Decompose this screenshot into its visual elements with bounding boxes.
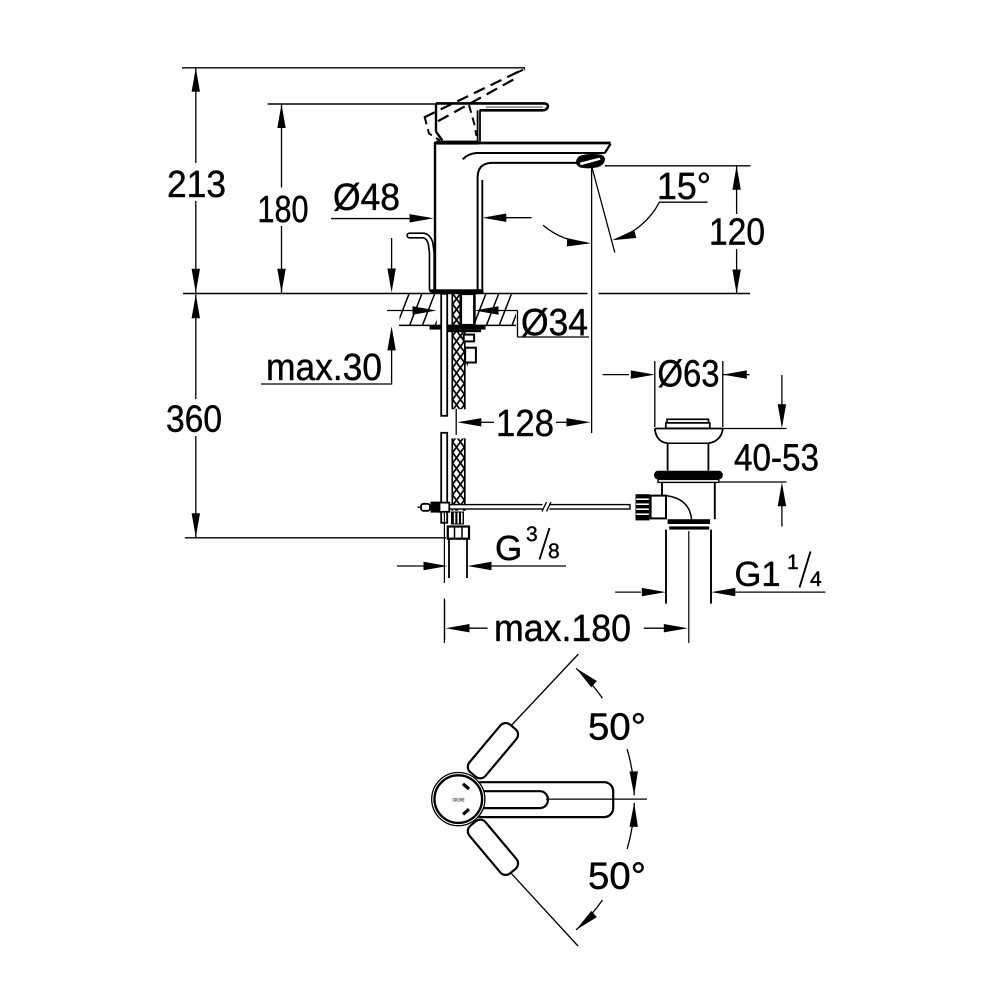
cartridge top thick bar [436,141,479,145]
213 dimension line [192,68,200,92]
15 deg angle arc right segment with arrow [616,202,659,239]
label 50 deg upper [590,713,644,740]
mounting stud in counter [461,294,475,325]
drain valve body [661,482,663,519]
aerator at spout tip [577,155,605,168]
G1 1/4 arrows [615,591,641,593]
dia 48 label with leader [334,183,398,211]
180 top reference line at lever top [268,103,436,105]
countertop top line [183,293,588,295]
dashed lever pivot outline [425,117,441,141]
spout underside outer line [463,153,605,159]
body right edge [481,180,483,291]
spout underside inner line and body inner corner [478,163,577,291]
max.30 upper arrow [391,238,393,270]
braided supply hose [452,294,465,410]
drain body bottom bars [668,519,710,524]
15 deg vertical reference line from spout [591,168,593,434]
rod coupling at hose [418,506,422,508]
hose nut [448,527,469,539]
top view: tiny logo [453,798,465,802]
lever front edge [477,110,479,141]
dashed lever in raised position [424,69,525,118]
faucet body outline [434,143,436,291]
dia 34 leader step and underline [517,311,519,338]
dia 34 hole arrows [387,310,413,312]
top view: lower handle grip [465,817,521,878]
120 dimension top reference line [605,165,751,167]
40-53 extension lines [723,428,787,430]
top view: base escutcheon circle [432,773,485,826]
faucet base plate on counter [431,289,484,293]
cartridge under lever [435,103,437,131]
dia 63 dimension arrows [603,374,629,376]
hose tailpiece G3/8 [448,539,450,578]
G3/8 arrows [397,565,424,567]
max.180 left extension line [444,601,446,640]
under-counter mounting washer [430,325,486,329]
label 120 [712,218,764,245]
180 dimension line [277,104,285,128]
dia 63 extension lines [654,361,656,427]
non-return valve on hose [464,335,474,342]
rod break marks [543,503,550,511]
label 128 [499,409,553,436]
15 deg angle arc left segment with arrow [543,225,587,243]
label G3/8 [497,536,520,561]
drain O-ring seal [654,471,723,480]
128 dimension arrows [457,418,481,426]
max.180 dimension arrows [446,624,470,632]
upper 50 deg arc with arrows [576,668,602,698]
solid lever handle [436,103,548,110]
128 dimension centre tick [455,409,457,435]
countertop bottom line [399,324,516,326]
360 bottom reference line [185,537,446,539]
smooth supply hose [441,294,447,523]
label 360 [167,405,220,432]
pop-up rod handle left of body [410,236,432,290]
label dia 34 [522,308,587,336]
15 deg slanted stream line [592,168,615,253]
drain flange trumpet [655,428,723,430]
label 180 [260,196,307,223]
120 dimension line with arrows [736,166,738,214]
top view: handle swivel legs [470,654,578,770]
drain tailpipe G1 1/4 [665,530,667,604]
hose ferrule [451,512,464,525]
top view: joint ticks [463,784,469,789]
knurled adjuster knob [636,494,650,520]
pop-up rod to drain [449,505,630,509]
top reference line (213 max height) [182,67,525,69]
label max.30 [268,353,380,380]
dia 48 right arrow [482,214,506,222]
drain side port [651,496,666,519]
top view: body circle [435,775,483,823]
label 40-53 [735,444,818,471]
top view: centreline [546,798,647,800]
top view: handle top surface [476,791,548,808]
15 deg leader line [659,201,707,203]
label 213 [169,170,225,197]
top view: upper handle grip [465,720,521,781]
drain tailpipe centreline [688,531,690,643]
drain washer [658,479,719,482]
lower 50 deg arc with arrows [576,900,602,930]
rod centreline [443,513,445,584]
360 dimension line [192,294,200,318]
label 15 deg [660,172,709,199]
top view: spout body seen from top [472,782,613,817]
drain pop-up knob [667,419,709,423]
max.30 underline [261,383,392,385]
label max.180 [496,614,629,641]
label dia 63 [659,359,718,387]
label G1 1/4 [736,561,779,586]
label 50 deg lower [590,862,644,889]
40-53 dimension arrows [781,375,783,405]
max.30 lower arrow [391,350,393,384]
